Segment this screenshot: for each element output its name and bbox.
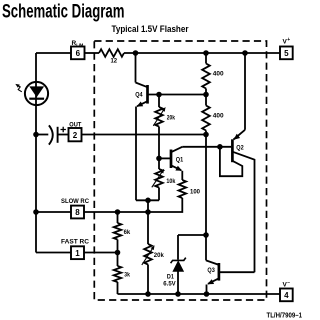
svg-text:400: 400 <box>213 112 224 119</box>
svg-text:20k: 20k <box>167 114 175 121</box>
wire: top V+ rail <box>36 52 71 54</box>
node: rail / D1 <box>203 232 209 238</box>
svg-text:100: 100 <box>190 188 200 195</box>
svg-text:Q3: Q3 <box>207 267 215 274</box>
pin 4 label V- <box>283 280 291 289</box>
pin 4 V- box <box>280 289 293 302</box>
resistor 10k (adjustable, Q1 base) <box>152 169 176 201</box>
LED (external flasher LED) <box>15 82 48 105</box>
resistor 400 (upper) <box>202 53 224 95</box>
svg-text:OUT: OUT <box>69 122 81 129</box>
wire: left rail (LED branch) <box>35 53 37 253</box>
svg-text:TL/H/7909–1: TL/H/7909–1 <box>267 312 303 319</box>
transistor Q2 (PNP, dual collector) <box>220 53 255 272</box>
svg-text:8: 8 <box>75 208 80 217</box>
svg-text:10k: 10k <box>166 178 175 185</box>
svg-text:400: 400 <box>213 71 224 78</box>
svg-text:3k: 3k <box>124 272 130 279</box>
node: V- rail / 20k <box>145 291 151 297</box>
pin 5 label V+ <box>283 37 291 46</box>
resistor 20k (adjustable, Q4 base) <box>153 95 175 170</box>
node: 400 divider tap <box>203 92 209 98</box>
svg-text:Q4: Q4 <box>135 91 143 98</box>
resistor 6k <box>114 212 131 253</box>
node: Q2 base / collector loop <box>217 144 223 150</box>
svg-text:Schematic Diagram: Schematic Diagram <box>2 1 125 23</box>
node: Q1 base / 10k <box>156 156 162 162</box>
resistor 12 ohm <box>99 49 124 64</box>
wire: Q4 emitter node to 10k bottom <box>136 199 159 201</box>
svg-text:20k: 20k <box>154 252 164 259</box>
node: slow RC / 20k <box>145 209 151 215</box>
svg-text:6.5V: 6.5V <box>163 280 176 287</box>
resistor 100 (Q1 emitter) <box>179 171 201 198</box>
node: V- rail / Q3 emitter <box>204 291 210 297</box>
wire: Q4 base to 400-divider node <box>148 94 207 96</box>
svg-text:4: 4 <box>284 291 289 300</box>
resistor 3k <box>114 253 130 295</box>
svg-text:Q2: Q2 <box>236 144 244 151</box>
pin 8 SLOW RC box <box>71 206 84 219</box>
svg-text:FAST RC: FAST RC <box>61 239 89 246</box>
node: top rail / Q2 emitter <box>242 50 248 56</box>
wire: FAST RC line <box>36 252 71 254</box>
svg-text:Typical 1.5V Flasher: Typical 1.5V Flasher <box>112 24 189 35</box>
wire: D1 to internal rail <box>178 234 206 236</box>
wire: SLOW RC rail <box>36 211 71 213</box>
IC package dashed boundary <box>94 41 266 300</box>
svg-text:+: + <box>287 37 290 43</box>
svg-text:LIM: LIM <box>76 42 83 47</box>
wire: Q1 collector to Q2 base <box>182 146 231 148</box>
pin 1 FAST RC box <box>71 246 84 259</box>
svg-text:6: 6 <box>76 49 81 58</box>
node: left rail / slow RC <box>33 209 39 215</box>
node: V- rail / D1 <box>175 291 181 297</box>
capacitor C1 (polarized, external) <box>49 125 66 144</box>
node: OUT / 400 bottom / rail <box>203 132 209 138</box>
node: Q4 emitter / 20k drop <box>145 198 151 204</box>
node: top rail / 400 top <box>203 50 209 56</box>
wire: OUT rail pin2 <box>36 134 48 136</box>
resistor 20k (adjustable, slow RC) <box>142 200 164 294</box>
pin 6 label R_LIM <box>72 40 84 47</box>
svg-text:6k: 6k <box>124 229 131 236</box>
pin 5 V+ box <box>280 47 293 60</box>
transistor Q1 (NPN) <box>159 147 183 171</box>
node: Q4 base / 20k <box>156 92 162 98</box>
node: slow RC / 6k <box>115 209 121 215</box>
svg-text:−: − <box>287 280 290 286</box>
node: fast RC / 6k-3k <box>115 250 121 256</box>
wire: internal rail from OUT node down to Q3 collector <box>205 135 207 261</box>
svg-text:Q1: Q1 <box>176 156 184 163</box>
transistor Q3 (NPN) <box>206 260 255 294</box>
svg-text:SLOW RC: SLOW RC <box>61 198 89 205</box>
node: left rail / OUT <box>33 132 39 138</box>
resistor 400 (lower) <box>202 95 224 135</box>
zener diode D1 6.5V <box>163 235 186 294</box>
wire: bottom V- rail <box>118 293 281 295</box>
pin 6 R_LIM box <box>71 47 85 60</box>
transistor Q4 (NPN) <box>135 53 147 200</box>
svg-text:5: 5 <box>284 49 289 58</box>
svg-text:1: 1 <box>75 249 80 258</box>
node: top rail / Q4 collector <box>133 50 139 56</box>
pin 2 OUT box <box>69 128 82 141</box>
svg-text:12: 12 <box>111 57 118 64</box>
svg-text:2: 2 <box>73 131 78 140</box>
